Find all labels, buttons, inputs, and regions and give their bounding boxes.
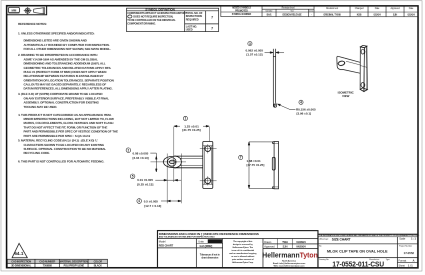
svg-text:Identifier: Identifier	[266, 10, 273, 13]
svg-text:4: 4	[138, 199, 140, 203]
svg-text:[31.75 ±0.25]: [31.75 ±0.25]	[182, 128, 200, 132]
svg-text:SYMBOL NUMBER: SYMBOL NUMBER	[232, 14, 252, 16]
svg-text:5: 5	[132, 174, 134, 178]
svg-text:Sheet: Sheet	[398, 263, 405, 267]
svg-text:SJH: SJH	[393, 15, 398, 17]
svg-text:DATUM REFERENCES, ALL DIMENSIO: DATUM REFERENCES, ALL DIMENSIONS APPLY A…	[24, 87, 113, 91]
thickness dimension 0.062	[265, 52, 285, 54]
iso arm	[345, 58, 360, 62]
svg-text:Format: Format	[398, 258, 406, 262]
svg-text:PROMOTED: PROMOTED	[235, 10, 248, 12]
svg-text:01/08/24: 01/08/24	[296, 240, 306, 244]
title block	[157, 231, 417, 268]
svg-text:7: 7	[240, 156, 242, 160]
revision table	[221, 6, 418, 17]
svg-text:Project Number: Project Number	[399, 244, 412, 247]
units black cell	[208, 239, 222, 243]
svg-text:COMPONENT DRAWING.: COMPONENT DRAWING.	[127, 21, 156, 25]
svg-text:North America: North America	[282, 259, 297, 262]
svg-text:17-0552: 17-0552	[404, 251, 415, 255]
svg-text:1. UNLESS OTHERWISE SPECIFIED: 1. UNLESS OTHERWISE SPECIFIED AND/OR IND…	[18, 31, 95, 35]
svg-text:design is reserved by: design is reserved by	[233, 244, 254, 246]
svg-text:and no unauthorized copying: and no unauthorized copying	[229, 252, 257, 255]
svg-text:Approved: Approved	[391, 7, 401, 10]
svg-text:17-0552-011-CSU: 17-0552-011-CSU	[332, 260, 384, 269]
units / projection symbol box	[7, 6, 47, 15]
arm	[174, 155, 203, 157]
svg-text:HellermannTyton: HellermannTyton	[262, 251, 318, 260]
svg-text:Revision text: Revision text	[326, 7, 338, 10]
svg-text:POLYPROPYLENE: POLYPROPYLENE	[64, 265, 85, 268]
svg-text:3: 3	[249, 42, 251, 46]
svg-text:The copyright of this: The copyright of this	[233, 240, 253, 243]
dimension 0.01 with balloon 5	[130, 174, 135, 179]
svg-text:3D-DIMENSIONAL: 3D-DIMENSIONAL	[11, 265, 31, 268]
svg-text:KSB: KSB	[357, 15, 362, 17]
recycling triangle 64.1	[12, 243, 27, 257]
svg-text:REFERENCE NOTES:: REFERENCE NOTES:	[18, 22, 47, 26]
svg-text:0.5 ±0.005: 0.5 ±0.005	[144, 199, 158, 203]
svg-text:T509808: T509808	[43, 265, 53, 268]
svg-text:Changed: Changed	[355, 8, 364, 10]
svg-text:AND TOLERANCES SHOWN ARE FOR I: AND TOLERANCES SHOWN ARE FOR INSPECTION …	[159, 236, 216, 239]
svg-text:[2.04 ±0.13]: [2.04 ±0.13]	[132, 156, 148, 160]
svg-text:Inch [MM2]: Inch [MM2]	[200, 244, 213, 248]
svg-text:[3.96 ±0.1]: [3.96 ±0.1]	[297, 111, 312, 115]
svg-text:SIZE CHART: SIZE CHART	[332, 237, 351, 241]
svg-text:04/20/24: 04/20/24	[296, 244, 306, 248]
svg-text:1: 1	[185, 117, 187, 121]
svg-text:CAD INSPECTION: CAD INSPECTION	[11, 260, 31, 263]
svg-text:-: -	[311, 15, 312, 17]
svg-text:1 / 1: 1 / 1	[408, 263, 413, 267]
svg-text:DOES NOT REQUIRE INSPECTION,: DOES NOT REQUIRE INSPECTION,	[133, 14, 173, 18]
cad/material table	[7, 259, 107, 263]
svg-text:REQUIRED: REQUIRED	[186, 17, 199, 21]
height dimension 1.88 with balloon 7	[248, 142, 273, 189]
svg-text:FOR ALL OTHER DIMENSIONS NOT S: FOR ALL OTHER DIMENSIONS NOT SHOWN, SEE …	[24, 47, 112, 51]
balloon 1	[183, 116, 187, 120]
svg-text:[47.75 ±0.25]: [47.75 ±0.25]	[246, 163, 264, 167]
third angle projection target symbol	[25, 8, 30, 13]
iso bar front face	[360, 47, 364, 92]
iso bar bottom cap	[360, 88, 367, 92]
iso top hole	[361, 49, 364, 54]
svg-text:Text: Text	[290, 10, 294, 13]
svg-text:No: No	[319, 246, 322, 248]
centerlines	[150, 161, 186, 163]
svg-text:021424: 021424	[408, 14, 416, 17]
svg-text:USED: USED	[186, 28, 193, 32]
svg-text:Zone: Zone	[309, 11, 314, 13]
svg-text:BA/1: BA/1	[267, 14, 273, 17]
svg-text:issue of it is confidential: issue of it is confidential	[232, 249, 255, 252]
svg-text:Revision level: Revision level	[282, 7, 295, 9]
reference notes text block	[18, 22, 118, 163]
svg-text:[12.7 ± 0.13]: [12.7 ± 0.13]	[144, 204, 161, 208]
svg-text:VIEW: VIEW	[342, 94, 350, 98]
svg-text:Units: Units	[198, 239, 204, 243]
svg-text:COLOR: COLOR	[94, 260, 103, 263]
front view: vertical bar	[150, 127, 216, 203]
upper profile (edge) view	[273, 49, 276, 108]
svg-text:TWH: TWH	[282, 240, 288, 244]
svg-text:021424: 021424	[374, 14, 382, 17]
svg-text:6. THIS PART IS NOT CONTROLLED: 6. THIS PART IS NOT CONTROLLED FOR AUTOM…	[18, 159, 104, 163]
svg-text:COMPONENTS WITHOUT AN INSPECTI: COMPONENTS WITHOUT AN INSPECTION HISTORY	[127, 11, 187, 15]
svg-text:Drawn: Drawn	[264, 240, 272, 244]
svg-text:Date: Date	[409, 7, 414, 10]
projection cone symbol	[34, 8, 45, 14]
svg-text:Model: Model	[159, 239, 166, 243]
svg-text:ADDED SYMBOLS: ADDED SYMBOLS	[232, 7, 251, 10]
svg-text:DESIGN RELEASE: DESIGN RELEASE	[283, 14, 302, 17]
svg-text:Email: info@hellermanntyton.co: Email: info@hellermanntyton.com	[273, 262, 305, 265]
svg-text:Approved: Approved	[264, 244, 275, 248]
svg-text:64.1: 64.1	[14, 251, 24, 256]
svg-text:7: 7	[211, 27, 213, 31]
svg-text:SJH: SJH	[283, 244, 288, 248]
svg-text:TOOLING MAY BE USED.: TOOLING MAY BE USED.	[24, 105, 58, 109]
svg-text:chart dimension: chart dimension	[201, 256, 219, 259]
svg-text:MATERIAL DESCRIPTION: MATERIAL DESCRIPTION	[60, 260, 88, 263]
svg-text:RECYCLING CODE.: RECYCLING CODE.	[23, 151, 50, 155]
svg-text:BLACK: BLACK	[94, 265, 102, 268]
svg-text:[1.57 ±0.12]: [1.57 ±0.12]	[246, 52, 262, 56]
svg-text:MM: MM	[12, 9, 17, 13]
svg-text:0.08 ±0.005: 0.08 ±0.005	[132, 151, 148, 155]
svg-text:PART ARE PERMISSIBLE PER SPEC: PART ARE PERMISSIBLE PER SPEC : S.QA 10.…	[23, 134, 90, 138]
isometric view	[337, 45, 368, 91]
iso bar top cap	[360, 45, 367, 47]
svg-text:RED CHART: RED CHART	[159, 243, 174, 247]
svg-text:prior written consent of: prior written consent of	[232, 258, 254, 261]
iso head plate	[337, 56, 345, 69]
svg-text:1 : 1: 1 : 1	[411, 237, 416, 241]
svg-text:[0.25 ±0.13]: [0.25 ±0.13]	[137, 182, 153, 186]
iso bottom hole	[361, 83, 364, 88]
svg-text:2: 2	[128, 148, 130, 152]
balloon 3	[248, 42, 252, 46]
svg-text:ORIGINAL TY008: ORIGINAL TY008	[323, 14, 341, 17]
svg-text:Advantage:: Advantage:	[319, 237, 329, 240]
svg-text:or use is allowed without: or use is allowed without	[231, 255, 254, 258]
bottom hole	[205, 178, 211, 184]
svg-text:HellermannTyton Corp.: HellermannTyton Corp.	[232, 261, 254, 264]
svg-text:CAD NUMBER: CAD NUMBER	[39, 260, 55, 263]
svg-text:4: 4	[300, 101, 302, 105]
copyright paragraph	[229, 240, 257, 264]
svg-text:HellermannTyton. The: HellermannTyton. The	[233, 246, 254, 249]
iso head oval slot	[338, 61, 345, 66]
svg-text:Web: www.hellermanntyton.com: Web: www.hellermanntyton.com	[274, 265, 305, 268]
svg-text:TO BE CONTROLLED ON THE INDIVI: TO BE CONTROLLED ON THE INDIVIDUAL	[127, 18, 176, 22]
dimension 0.5 with balloon 4	[137, 199, 142, 204]
symbol definition table	[127, 8, 219, 31]
svg-text:DIMENSIONS ENCLOSED IN [ ] IND: DIMENSIONS ENCLOSED IN [ ] INDICATE REFE…	[159, 233, 260, 236]
svg-text:MLOK CLIP TAPE ON OVAL HOLE: MLOK CLIP TAPE ON OVAL HOLE	[327, 249, 388, 253]
leader and label R0.156 with balloon 4	[277, 104, 295, 109]
top hole	[205, 146, 211, 152]
svg-text:0.01 ±0.005: 0.01 ±0.005	[137, 178, 153, 182]
svg-text:A: A	[413, 258, 415, 262]
lower side view (tall)	[272, 142, 278, 189]
svg-text:Type: Type	[386, 259, 391, 261]
dimension 0.08 (left of arm)	[150, 153, 157, 172]
svg-text:Scale: Scale	[399, 237, 406, 241]
head with oval hole	[163, 156, 181, 168]
dimension 1.25 (top)	[174, 125, 210, 127]
iso bar side face	[364, 46, 368, 91]
svg-text:7: 7	[211, 16, 213, 20]
MM cell	[8, 12, 19, 14]
svg-text:Date: Date	[375, 7, 380, 10]
svg-text:Drawing No.: Drawing No.	[319, 259, 329, 261]
